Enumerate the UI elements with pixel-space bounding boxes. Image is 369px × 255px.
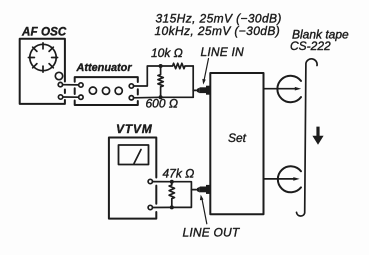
play head (bottom) bbox=[278, 166, 301, 192]
attenuator box bbox=[75, 77, 138, 105]
wire attenuator top output up to node A bbox=[134, 66, 161, 86]
svg-text:LINE IN: LINE IN bbox=[201, 45, 245, 59]
resistor 10kΩ bbox=[161, 63, 194, 68]
AF OSC output terminal top bbox=[58, 82, 62, 86]
svg-text:Attenuator: Attenuator bbox=[76, 62, 133, 74]
pointer arrow LINE OUT bbox=[202, 199, 207, 224]
svg-text:10kHz, 25mV (−30dB): 10kHz, 25mV (−30dB) bbox=[155, 24, 281, 38]
wire VTVM bottom terminal to node D bbox=[153, 206, 172, 208]
tape (vertical run with end hooks) bbox=[297, 59, 318, 216]
wire AF OSC to attenuator (top lead) bbox=[63, 84, 79, 86]
svg-text:10k Ω: 10k Ω bbox=[151, 46, 183, 60]
VTVM terminal bottom bbox=[148, 205, 152, 209]
attenuator output terminal top bbox=[129, 84, 133, 88]
attenuator input terminal top bbox=[79, 83, 83, 87]
tape direction arrow (bold down) bbox=[312, 127, 323, 145]
resistor 600Ω (shunt) bbox=[158, 66, 163, 97]
AF OSC output terminal bottom bbox=[58, 95, 62, 99]
svg-text:Set: Set bbox=[228, 131, 247, 145]
VTVM box (voltmeter) bbox=[109, 138, 156, 219]
node C (junction dot) bbox=[170, 180, 174, 184]
node D (junction dot) bbox=[170, 205, 174, 209]
wire Set to play head with arrow bbox=[264, 178, 294, 180]
pointer arrow LINE IN bbox=[204, 59, 209, 81]
svg-text:600 Ω: 600 Ω bbox=[146, 97, 178, 111]
meter needle bbox=[134, 150, 141, 164]
AF OSC box (signal generator) bbox=[20, 39, 65, 104]
svg-text:CS-222: CS-222 bbox=[290, 39, 331, 53]
Set box (tape deck) bbox=[210, 73, 263, 214]
plug into LINE IN jack bbox=[193, 89, 197, 91]
svg-text:AF OSC: AF OSC bbox=[21, 25, 67, 38]
resistor 47kΩ bbox=[169, 182, 174, 208]
node A (junction dot) bbox=[159, 64, 163, 68]
svg-text:LINE OUT: LINE OUT bbox=[183, 226, 241, 240]
wire VTVM top terminal to node C bbox=[153, 181, 172, 183]
wire node A down through resistor to node B (right vertical) bbox=[192, 66, 194, 97]
wire Set to record head with arrow bbox=[264, 88, 296, 90]
attenuator input terminal bottom bbox=[79, 95, 83, 99]
wire node C to LINE OUT vertical bbox=[172, 182, 192, 208]
LINE OUT plug into jack bbox=[191, 189, 197, 191]
attenuator knob 2 bbox=[102, 87, 109, 94]
meter face bbox=[119, 145, 149, 165]
attenuator knob 3 bbox=[115, 87, 122, 94]
attenuator output terminal bottom bbox=[129, 96, 133, 100]
attenuator knob 1 bbox=[89, 87, 96, 94]
svg-text:47k Ω: 47k Ω bbox=[163, 167, 195, 181]
node B (junction dot) bbox=[159, 95, 163, 99]
svg-text:VTVM: VTVM bbox=[116, 122, 153, 136]
VTVM terminal top bbox=[148, 179, 152, 183]
knob of AF OSC bbox=[55, 72, 62, 79]
wire AF OSC to attenuator (bottom lead) bbox=[63, 96, 79, 98]
record head (top) bbox=[277, 76, 301, 102]
wire attenuator bottom output to node B bbox=[134, 96, 194, 99]
dial of AF OSC bbox=[28, 43, 57, 72]
